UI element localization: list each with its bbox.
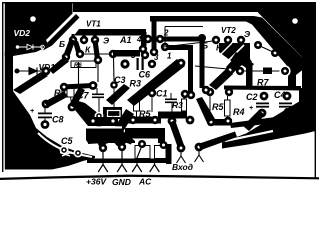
resistor R6 outline box xyxy=(71,61,96,68)
svg-text:Вход: Вход xyxy=(172,162,193,172)
transistor VT2 pad B xyxy=(212,36,220,44)
trace bar bottom right pads xyxy=(208,119,232,126)
trace bar C7 row xyxy=(62,83,93,90)
svg-text:+: + xyxy=(249,105,253,112)
transformer winding pads in outline boxes xyxy=(135,146,150,159)
wire R7 xyxy=(243,70,281,72)
R3 leads xyxy=(183,95,185,99)
trace C2 down-left xyxy=(243,110,265,131)
border frame bottom xyxy=(0,175,319,180)
pad T2 top xyxy=(177,59,186,68)
svg-text:С8: С8 xyxy=(52,115,64,125)
capacitor C8 plates xyxy=(38,113,52,115)
svg-text:VD2: VD2 xyxy=(14,28,31,38)
trace bar B3 xyxy=(158,112,187,119)
pad Vhod left xyxy=(177,144,186,153)
copper pour: top band A with top-right corner fill and right edge band xyxy=(6,3,316,92)
resistor R8 body xyxy=(67,85,74,97)
stubs VT1 pads to band xyxy=(72,34,75,40)
svg-text:R5: R5 xyxy=(139,109,151,119)
pad R5 top xyxy=(206,88,214,96)
pad above R3 xyxy=(181,90,189,98)
pad node43 xyxy=(139,45,147,53)
mounting hole top-left xyxy=(30,16,36,22)
resistor R3 body xyxy=(182,99,187,111)
pad node L2 bottom xyxy=(187,91,195,99)
pad node 230,70 xyxy=(226,66,235,75)
lead pad152 down xyxy=(151,96,153,112)
trace bar B1 with pads xyxy=(88,117,118,126)
transistor VT1 pad E xyxy=(91,36,99,44)
capacitor C1 plates xyxy=(165,99,177,101)
svg-text:R5: R5 xyxy=(212,102,224,112)
trace pad230 down-left xyxy=(209,68,233,90)
central pour wedge upper (left of C7 lead) xyxy=(75,100,104,126)
pad 72,107 with trace up xyxy=(68,103,77,112)
pad 172,121 xyxy=(168,117,177,126)
trace bar C6 left xyxy=(113,50,140,57)
resistor R7 body xyxy=(263,68,272,75)
svg-text:С5: С5 xyxy=(61,136,73,146)
white etch slit along pour edge xyxy=(38,133,92,157)
pad C8 bottom xyxy=(41,120,50,129)
svg-text:С1: С1 xyxy=(156,89,168,99)
pad node L1 bottom xyxy=(202,86,210,94)
svg-text:2: 2 xyxy=(163,29,169,38)
trace L1 from pad2 right then down xyxy=(160,37,205,89)
pad 44,105 with trace up xyxy=(42,100,51,109)
leads R5 R4 xyxy=(209,96,211,100)
wire jumper to pad230 xyxy=(195,66,228,69)
trace: vertical from band B to A1 pad5 xyxy=(152,20,157,51)
capacitor C7 plates xyxy=(92,94,104,96)
svg-text:С2: С2 xyxy=(246,92,258,102)
corner trace D0 xyxy=(232,52,254,70)
resistor R5 left body xyxy=(134,99,140,111)
transistor VT2 pad K xyxy=(224,36,232,44)
mounting hole top-right xyxy=(292,18,298,24)
trace diag into bar xyxy=(196,97,215,123)
pad Vhod right xyxy=(195,143,204,152)
trace to Vhod pad xyxy=(169,120,184,148)
diode VD2 symbol (white on pour) xyxy=(16,44,44,49)
transformer Tr3 footprint ring xyxy=(125,128,165,139)
C7 leads xyxy=(96,88,98,94)
C1 leads xyxy=(170,93,172,99)
left edge pour band + bottom-left corner fill xyxy=(5,52,95,170)
svg-text:R3: R3 xyxy=(130,79,142,89)
trace VT1 E down xyxy=(93,40,101,60)
trace VT1 B down fork xyxy=(63,38,75,58)
capacitor C4 pad bottom xyxy=(284,108,290,114)
pad A1-4 xyxy=(144,35,152,43)
resistor R4 body xyxy=(225,100,231,116)
border frame right xyxy=(315,2,316,179)
white slit in swoosh xyxy=(225,131,273,141)
transistor VT2 pad E xyxy=(237,36,245,44)
pad R7 right xyxy=(279,65,290,76)
pour: bottom right swoosh wedge xyxy=(222,101,316,149)
trace wedge C3 xyxy=(106,84,130,105)
pad C6 right xyxy=(148,60,156,68)
wire lead pad80 down xyxy=(78,62,80,86)
border frame top xyxy=(2,2,316,3)
svg-text:Э: Э xyxy=(244,29,250,39)
svg-text:Э: Э xyxy=(103,36,109,46)
wire jumper K row xyxy=(84,53,109,55)
trace: diagonal band from top gap to VD1 area xyxy=(43,14,80,51)
svg-text:+36V: +36V xyxy=(86,177,107,187)
trace bar C2 row xyxy=(224,86,301,91)
capacitor C6 plates xyxy=(137,58,139,70)
capacitor C2: pad top xyxy=(260,92,269,101)
jumper symbol near pour xyxy=(52,149,60,152)
diode VD1 symbol xyxy=(15,68,42,75)
svg-text:AC: AC xyxy=(138,177,152,187)
border frame left xyxy=(2,2,3,172)
wire jumper to VT2 B xyxy=(163,41,213,47)
C8 leads xyxy=(44,108,46,113)
node pads below VT1 xyxy=(62,53,70,61)
svg-text:К: К xyxy=(85,45,91,55)
trace T2 long diagonal to pad xyxy=(127,59,185,106)
trace from mass to pad230 xyxy=(226,55,245,73)
trace bar B2 with pads xyxy=(128,117,161,124)
pad A1-3 xyxy=(141,51,149,59)
pads jumper in corner pocket xyxy=(254,41,262,49)
wire lead pad98 down xyxy=(97,64,99,82)
pad 190,120 xyxy=(186,116,195,125)
IC A1 outline thin lines xyxy=(165,27,203,44)
capacitor C4 plates xyxy=(279,103,292,105)
trace band to pad43 xyxy=(141,32,147,46)
white ring pads on pours xyxy=(99,144,107,152)
trace Vhod right up xyxy=(198,132,237,151)
Vhod pin forks xyxy=(177,151,204,163)
vertical bar right of boxes xyxy=(166,144,172,164)
pad C6 left xyxy=(120,59,129,68)
white slits in VT2 mass xyxy=(226,45,244,63)
capacitor C2 pad bottom xyxy=(258,109,267,118)
svg-text:R3: R3 xyxy=(172,100,183,110)
R5 left leads xyxy=(136,93,138,99)
trace L2 from pad1 right then down xyxy=(166,45,193,93)
pad A1-5 xyxy=(150,48,158,56)
R7 row: pad left xyxy=(236,67,244,75)
trace mass below VT2 xyxy=(219,43,250,66)
transistor VT1 pad K xyxy=(80,36,88,44)
trace VD1 to node xyxy=(49,56,69,74)
svg-text:GND: GND xyxy=(112,177,131,187)
pad A1-2 xyxy=(156,35,164,43)
pour: right edge band lower xyxy=(299,88,316,133)
bottom center pour band with supply pads xyxy=(88,136,128,144)
trace band into swoosh xyxy=(230,116,284,128)
R8 lead up xyxy=(71,97,72,103)
bottom horizontal trace band xyxy=(87,159,172,164)
pour filler below B1 bar xyxy=(86,129,135,144)
pad VD1 cathode xyxy=(42,67,51,76)
svg-text:R4: R4 xyxy=(233,107,245,117)
svg-text:VT2: VT2 xyxy=(221,26,236,35)
capacitor C2 plates xyxy=(256,103,269,105)
trace: band B second top trace xyxy=(150,16,310,88)
copper pour: top-left corner block xyxy=(5,3,73,56)
transistor VT1 pad B xyxy=(69,36,77,44)
supply pin stems and forks xyxy=(98,148,159,172)
pad node 202,38 xyxy=(198,34,206,42)
central pour X blob xyxy=(96,124,133,145)
wire lead pad113 down xyxy=(113,58,116,81)
svg-text:1: 1 xyxy=(167,52,172,61)
capacitor C4 pad top xyxy=(283,92,292,101)
pad A1-1 xyxy=(161,43,169,51)
svg-text:+: + xyxy=(30,108,34,115)
svg-text:А1: А1 xyxy=(119,35,132,45)
trace: horizontal band above VT1 pads xyxy=(74,29,146,36)
pad R4 top xyxy=(225,88,233,96)
svg-text:Б: Б xyxy=(59,39,65,49)
svg-text:VT1: VT1 xyxy=(86,20,101,29)
